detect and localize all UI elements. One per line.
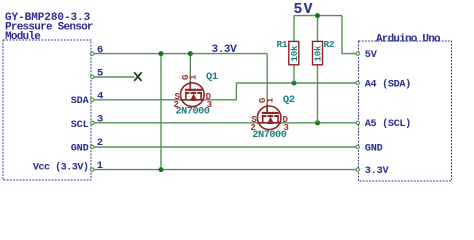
wire 3.3V net: module pin6 to corner — [92, 53, 267, 55]
svg-text:1: 1 — [97, 160, 103, 172]
svg-text:5V: 5V — [365, 50, 378, 61]
Q2 pin name D and pin number 3 — [283, 115, 289, 133]
module pin 6 — [91, 44, 104, 56]
wire GND net: module pin2 to Arduino GND — [92, 146, 357, 148]
wire SDA net: module pin4 to Q1 source — [92, 99, 180, 101]
wire 5V net: R2 top drop — [317, 16, 319, 42]
wire 3.3V net: corner down to Q2 gate — [266, 54, 268, 107]
Arduino Uno box outline (dashed) — [359, 41, 452, 181]
module pin 2 (GND) — [71, 137, 103, 154]
svg-text:GND: GND — [365, 143, 383, 154]
svg-text:2: 2 — [97, 137, 103, 149]
Q1 pin name D and pin number 3 — [206, 92, 212, 110]
svg-text:GND: GND — [71, 143, 89, 154]
Arduino pin GND — [356, 143, 383, 154]
junction 5V net at R2 top — [315, 13, 320, 18]
svg-text:1: 1 — [189, 74, 199, 80]
junction Vcc rail at x161 — [159, 167, 164, 172]
module pin 3 (SCL) — [71, 114, 104, 132]
wire 5V net: down to Arduino 5V pin — [342, 16, 358, 54]
wire SCL(5V) net: Q2 drain to Arduino A5 — [281, 122, 357, 124]
Arduino pin 5V — [356, 50, 378, 61]
svg-text:6: 6 — [97, 44, 103, 56]
svg-text:3: 3 — [97, 114, 103, 126]
svg-text:2N7000: 2N7000 — [252, 130, 286, 141]
wire SDA(5V) net: Q1 drain to Arduino A4 — [204, 83, 357, 100]
no-connect X on pin 5 — [134, 72, 141, 81]
svg-text:5: 5 — [97, 68, 103, 80]
Q2 pin name G and pin number 1 (rotated) — [258, 97, 275, 103]
svg-text:R2: R2 — [324, 39, 335, 50]
svg-text:SDA: SDA — [71, 96, 90, 107]
wire R2 bottom to SCL(5V) net — [317, 65, 319, 123]
svg-text:A4 (SDA): A4 (SDA) — [365, 78, 411, 90]
wire 5V net: R1 top drop — [293, 16, 295, 42]
svg-text:Module: Module — [5, 31, 41, 43]
junction SCL(5V) net at R2 bottom — [315, 120, 320, 125]
resistor R1 body — [289, 41, 300, 64]
Q1 pin name S and pin number 2 — [174, 92, 181, 110]
svg-text:10k: 10k — [313, 45, 324, 62]
svg-text:10k: 10k — [289, 45, 300, 62]
wire R1 bottom to SDA(5V) net — [293, 65, 295, 83]
Arduino pin A5 (SCL) — [356, 118, 411, 130]
wire 5V net horizontal — [294, 15, 342, 17]
module box outline (dashed) — [3, 40, 91, 180]
Arduino pin 3.3V — [356, 166, 390, 177]
svg-text:1: 1 — [266, 97, 276, 103]
wire SCL net: module pin3 to Q2 source — [92, 122, 257, 124]
Arduino pin A4 (SDA) — [356, 78, 411, 90]
module title text GY-BMP280-3.3 Pressure Sensor Module — [5, 12, 93, 43]
wire Vcc 3.3V rail: module pin1 to Arduino 3.3V — [92, 169, 357, 171]
junction 3.3V net at x190 (Q1 gate tap) — [188, 51, 193, 56]
module pin 4 (SDA) — [71, 91, 104, 108]
svg-text:2N7000: 2N7000 — [176, 107, 210, 118]
transistor Q1 (2N7000 MOSFET) — [180, 81, 204, 106]
Q1 pin name G and pin number 1 (rotated) — [181, 74, 198, 80]
wire module pin5 stub (unconnected) — [92, 76, 134, 78]
svg-text:Q2: Q2 — [283, 94, 295, 106]
svg-text:Q1: Q1 — [206, 71, 218, 83]
Q2 pin name S and pin number 2 — [250, 115, 257, 133]
wire 3.3V net: vertical from junction down to Vcc rail — [160, 54, 162, 170]
wire 3.3V net: vertical from junction down to Q1 gate — [189, 54, 191, 83]
svg-text:R1: R1 — [277, 39, 288, 50]
resistor R2 body — [313, 41, 324, 64]
svg-text:3.3V: 3.3V — [212, 44, 238, 56]
svg-text:Vcc (3.3V): Vcc (3.3V) — [33, 161, 89, 173]
junction SDA(5V) net at R1 bottom — [292, 81, 297, 86]
module pin 5 — [91, 68, 104, 80]
svg-text:4: 4 — [97, 91, 103, 103]
svg-text:A5 (SCL): A5 (SCL) — [365, 118, 411, 130]
junction 3.3V net at x161 — [159, 51, 164, 56]
svg-text:3.3V: 3.3V — [365, 166, 390, 177]
svg-text:SCL: SCL — [71, 120, 89, 131]
transistor Q2 (2N7000 MOSFET) — [257, 104, 281, 130]
svg-text:Arduino Uno: Arduino Uno — [376, 33, 441, 45]
module pin 1 (Vcc 3.3V) — [33, 160, 103, 173]
